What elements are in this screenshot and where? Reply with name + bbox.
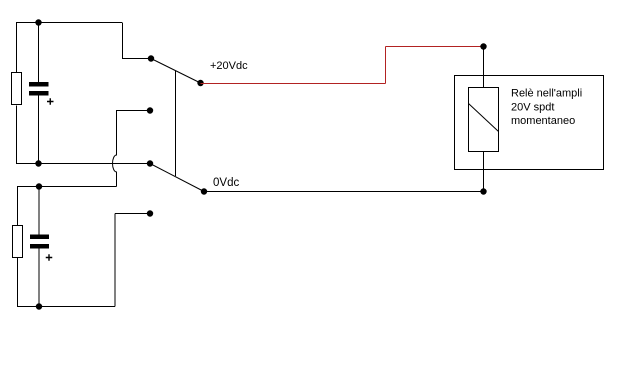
wire lower throw to battery2 top (with hop) (113, 111, 151, 187)
svg-text:Relè nell'ampli: Relè nell'ampli (511, 88, 582, 100)
node switch S1a common (+20Vdc) (197, 80, 203, 86)
wire battery1 left side (16, 23, 18, 164)
wire lower throw to battery2 bottom (115, 214, 150, 307)
relay enclosure box (455, 76, 604, 170)
label +20Vdc (210, 60, 248, 72)
svg-text:momentaneo: momentaneo (511, 115, 575, 127)
wire capacitor C2 bottom lead (38, 249, 40, 307)
node switch S1b common (0Vdc) (201, 188, 207, 194)
node switch S1b throw contact (147, 160, 153, 166)
switch mechanical link (175, 71, 177, 177)
wire relay coil bottom lead (483, 152, 485, 192)
node switch S1a lower throw contact (147, 107, 153, 113)
polarity + label C1 (47, 98, 54, 105)
capacitor C2 (30, 235, 49, 249)
wire battery1 top to switch pole A (122, 23, 151, 59)
switch S1b lever (150, 164, 204, 192)
label 0Vdc (213, 177, 239, 189)
relay coil diagonal (469, 104, 499, 132)
relay coil K1 (469, 88, 499, 152)
wire relay coil top lead (483, 47, 485, 88)
wire 0Vdc net (204, 191, 484, 193)
svg-text:+20Vdc: +20Vdc (210, 60, 248, 72)
label relay description (511, 88, 582, 127)
wire battery2 left side (17, 187, 19, 307)
node battery1 bottom junction (35, 160, 41, 166)
node switch S1b lower throw contact (147, 210, 153, 216)
wire battery2 bottom rail (17, 306, 115, 308)
node battery1 top junction (35, 19, 41, 25)
capacitor C1 (29, 82, 49, 96)
switch S1a lever (151, 59, 201, 84)
node battery2 top junction (36, 183, 42, 189)
node +20Vdc relay feed junction (480, 43, 486, 49)
wire battery1 top rail (16, 22, 122, 24)
node switch S1a throw contact (148, 55, 154, 61)
svg-text:20V spdt: 20V spdt (511, 102, 554, 114)
svg-text:0Vdc: 0Vdc (213, 177, 239, 189)
resistor R2 (13, 226, 23, 258)
wire battery1 bottom rail (16, 163, 150, 165)
wire +20Vdc net (red) (201, 47, 484, 84)
wire capacitor C1 top lead (38, 23, 40, 83)
wire capacitor C1 bottom lead (38, 96, 40, 164)
node battery2 bottom junction (36, 303, 42, 309)
polarity + label C2 (46, 254, 53, 261)
wire capacitor C2 top lead (38, 187, 40, 235)
wire battery2 top rail (17, 186, 117, 188)
node relay 0Vdc junction (480, 188, 486, 194)
resistor R1 (12, 73, 22, 105)
